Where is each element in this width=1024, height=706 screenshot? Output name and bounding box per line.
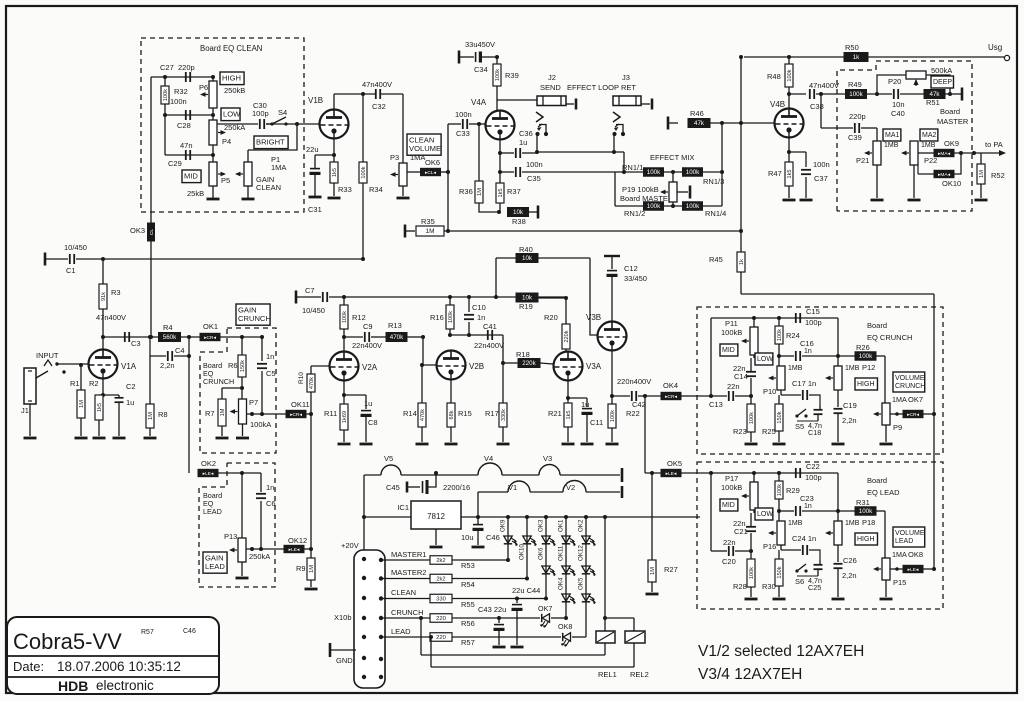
svg-text:C11: C11 — [590, 418, 603, 427]
svg-text:P19 100kB: P19 100kB — [622, 185, 659, 194]
svg-text:V4: V4 — [484, 454, 493, 463]
svg-text:100kA: 100kA — [250, 420, 271, 429]
svg-text:CRUNCH: CRUNCH — [203, 377, 234, 386]
svg-text:100kB: 100kB — [721, 483, 742, 492]
svg-text:R48: R48 — [767, 72, 781, 81]
svg-text:C9: C9 — [363, 322, 373, 331]
svg-text:Board: Board — [940, 107, 960, 116]
svg-text:RN1/4: RN1/4 — [705, 209, 726, 218]
svg-text:V3/4 12AX7EH: V3/4 12AX7EH — [698, 666, 802, 683]
svg-text:1MB: 1MB — [788, 520, 803, 527]
svg-text:1MB: 1MB — [921, 142, 936, 149]
svg-text:V1/2 selected 12AX7EH: V1/2 selected 12AX7EH — [698, 643, 864, 660]
svg-text:500kA: 500kA — [931, 66, 952, 75]
svg-text:1n: 1n — [804, 503, 812, 510]
svg-text:▸LE◂: ▸LE◂ — [289, 547, 300, 553]
svg-text:1k5: 1k5 — [97, 403, 103, 412]
svg-text:1n: 1n — [804, 348, 812, 355]
svg-text:1M: 1M — [650, 567, 656, 575]
svg-text:CRUNCH: CRUNCH — [391, 608, 424, 617]
svg-text:C41: C41 — [483, 322, 497, 331]
svg-text:V3B: V3B — [586, 313, 601, 322]
svg-text:C45: C45 — [386, 483, 400, 492]
svg-text:S4: S4 — [278, 108, 287, 117]
svg-text:1k: 1k — [853, 54, 860, 61]
svg-text:C27: C27 — [160, 63, 174, 72]
svg-text:10k: 10k — [513, 209, 524, 216]
svg-text:10k: 10k — [522, 295, 533, 302]
svg-text:EFFECT LOOP: EFFECT LOOP — [567, 83, 619, 92]
svg-text:100k: 100k — [361, 166, 367, 178]
svg-text:1M: 1M — [79, 400, 85, 408]
svg-text:560k: 560k — [163, 334, 177, 341]
svg-text:OK12: OK12 — [578, 545, 585, 561]
svg-text:R56: R56 — [461, 619, 475, 628]
svg-text:1M: 1M — [425, 228, 434, 235]
svg-text:C34: C34 — [474, 65, 488, 74]
svg-text:22n: 22n — [727, 382, 740, 391]
svg-text:EQ CRUNCH: EQ CRUNCH — [867, 333, 912, 342]
svg-text:C15: C15 — [806, 307, 820, 316]
svg-text:1MA: 1MA — [410, 153, 425, 162]
svg-text:P11: P11 — [725, 319, 738, 328]
svg-text:CRUNCH: CRUNCH — [895, 383, 925, 390]
svg-text:C6: C6 — [266, 499, 276, 508]
svg-text:C20: C20 — [722, 557, 736, 566]
svg-text:1MA: 1MA — [271, 163, 286, 172]
svg-text:47k: 47k — [694, 120, 705, 127]
svg-text:MID: MID — [184, 172, 198, 181]
svg-text:▸MA◂: ▸MA◂ — [938, 172, 951, 178]
svg-text:▸LE◂: ▸LE◂ — [666, 471, 677, 477]
svg-text:P5: P5 — [221, 176, 230, 185]
svg-text:▸CL◂: ▸CL◂ — [425, 170, 437, 176]
svg-text:C25: C25 — [808, 583, 821, 592]
svg-text:R25: R25 — [762, 427, 776, 436]
svg-text:220: 220 — [436, 635, 446, 641]
svg-text:P21: P21 — [856, 156, 869, 165]
svg-text:C29: C29 — [168, 159, 182, 168]
svg-text:R23: R23 — [733, 427, 747, 436]
svg-text:VOLUME: VOLUME — [409, 144, 441, 153]
svg-text:R35: R35 — [421, 217, 435, 226]
svg-text:OK4: OK4 — [558, 577, 565, 590]
svg-text:MASTER: MASTER — [937, 117, 969, 126]
svg-text:10n: 10n — [892, 100, 905, 109]
svg-text:OK12: OK12 — [288, 536, 307, 545]
svg-text:C4: C4 — [175, 346, 185, 355]
svg-text:LOW: LOW — [223, 110, 241, 119]
svg-text:V4B: V4B — [770, 100, 785, 109]
svg-text:R27: R27 — [664, 565, 678, 574]
svg-text:R53: R53 — [461, 561, 475, 570]
svg-text:150k: 150k — [240, 360, 246, 372]
svg-text:47n400V: 47n400V — [96, 313, 126, 322]
svg-text:R52: R52 — [991, 171, 1005, 180]
svg-text:RN1/2: RN1/2 — [624, 209, 645, 218]
svg-text:C46: C46 — [183, 628, 196, 635]
svg-text:P16: P16 — [763, 542, 776, 551]
svg-text:68k: 68k — [449, 410, 455, 419]
svg-text:100k: 100k — [647, 169, 661, 176]
svg-text:C36: C36 — [519, 129, 533, 138]
svg-text:▸CR◂: ▸CR◂ — [907, 412, 919, 418]
svg-text:220k: 220k — [522, 360, 536, 367]
svg-text:J2: J2 — [548, 73, 556, 82]
svg-text:1MA: 1MA — [892, 395, 907, 404]
svg-text:C21: C21 — [734, 527, 748, 536]
svg-text:C39: C39 — [848, 133, 862, 142]
svg-text:V1A: V1A — [121, 362, 137, 371]
svg-text:2200/16: 2200/16 — [443, 483, 470, 492]
svg-text:1n: 1n — [266, 483, 274, 492]
svg-text:250kA: 250kA — [249, 552, 270, 561]
svg-text:100n: 100n — [813, 160, 830, 169]
svg-text:220n400V: 220n400V — [617, 377, 651, 386]
svg-text:220p: 220p — [849, 112, 866, 121]
svg-text:R17: R17 — [485, 409, 499, 418]
svg-text:1k5: 1k5 — [566, 410, 572, 419]
svg-text:MASTER1: MASTER1 — [391, 550, 426, 559]
svg-text:C31: C31 — [308, 205, 322, 214]
svg-text:R10: R10 — [298, 372, 305, 384]
svg-text:Board: Board — [867, 476, 887, 485]
svg-text:R14: R14 — [403, 409, 417, 418]
svg-text:LEAD: LEAD — [203, 507, 222, 516]
svg-text:1u: 1u — [126, 398, 134, 407]
svg-text:MID: MID — [722, 502, 735, 509]
svg-text:2k2: 2k2 — [436, 558, 445, 564]
svg-text:R55: R55 — [461, 600, 475, 609]
svg-text:GND: GND — [336, 656, 353, 665]
svg-text:C16: C16 — [800, 339, 814, 348]
svg-text:CRUNCH: CRUNCH — [238, 314, 271, 323]
svg-text:R13: R13 — [388, 321, 402, 330]
svg-text:22n400V: 22n400V — [352, 341, 382, 350]
svg-text:91k: 91k — [101, 292, 107, 301]
svg-text:470k: 470k — [420, 409, 426, 421]
svg-text:HDB: HDB — [58, 678, 88, 694]
svg-text:47n400V: 47n400V — [362, 80, 392, 89]
svg-text:100p: 100p — [252, 109, 269, 118]
svg-text:10k: 10k — [522, 255, 533, 262]
svg-text:R30: R30 — [762, 582, 776, 591]
svg-text:P15: P15 — [893, 578, 906, 587]
svg-text:C22: C22 — [806, 462, 820, 471]
svg-text:R8: R8 — [158, 410, 168, 419]
svg-text:2,2n: 2,2n — [842, 416, 857, 425]
svg-text:OK10: OK10 — [942, 179, 961, 188]
svg-text:SEND: SEND — [540, 83, 561, 92]
svg-text:2k2: 2k2 — [436, 577, 445, 583]
svg-text:1k5: 1k5 — [787, 169, 793, 178]
svg-text:V1B: V1B — [308, 96, 323, 105]
svg-text:R11: R11 — [324, 409, 337, 418]
svg-text:1MB: 1MB — [884, 142, 899, 149]
svg-text:100k: 100k — [647, 203, 661, 210]
svg-text:C33: C33 — [456, 129, 470, 138]
svg-text:P12: P12 — [862, 363, 875, 372]
svg-text:OK9: OK9 — [500, 519, 507, 532]
svg-text:100k: 100k — [495, 69, 501, 81]
svg-text:R1: R1 — [70, 379, 80, 388]
svg-text:OK1: OK1 — [203, 322, 218, 331]
svg-text:1n: 1n — [266, 352, 274, 361]
svg-text:V3: V3 — [543, 454, 552, 463]
svg-text:R24: R24 — [786, 331, 800, 340]
svg-text:220: 220 — [436, 616, 446, 622]
svg-text:22u C44: 22u C44 — [512, 586, 540, 595]
svg-text:C38: C38 — [810, 102, 824, 111]
svg-text:▸LE◂: ▸LE◂ — [203, 471, 214, 477]
svg-text:100k: 100k — [163, 89, 169, 101]
svg-text:1u: 1u — [364, 399, 372, 408]
svg-text:LEAD: LEAD — [895, 538, 913, 545]
svg-text:C35: C35 — [527, 174, 541, 183]
svg-text:R3: R3 — [111, 288, 121, 297]
svg-text:BRIGHT: BRIGHT — [256, 138, 285, 147]
svg-text:▸CR◂: ▸CR◂ — [290, 412, 302, 418]
svg-text:25kB: 25kB — [187, 189, 204, 198]
svg-text:REL2: REL2 — [630, 670, 649, 679]
svg-text:S5: S5 — [795, 422, 804, 431]
svg-text:R50: R50 — [845, 43, 859, 52]
svg-text:EQ LEAD: EQ LEAD — [867, 488, 900, 497]
svg-text:C1: C1 — [66, 266, 76, 275]
svg-text:100k: 100k — [777, 484, 783, 496]
svg-text:R33: R33 — [338, 185, 352, 194]
svg-text:R18: R18 — [516, 350, 530, 359]
svg-text:▸LE◂: ▸LE◂ — [908, 567, 919, 573]
svg-text:100k: 100k — [342, 311, 348, 323]
svg-text:OK3: OK3 — [538, 519, 545, 532]
svg-text:C26: C26 — [843, 556, 857, 565]
svg-text:to PA: to PA — [985, 140, 1003, 149]
svg-text:C5: C5 — [266, 369, 276, 378]
svg-text:R20: R20 — [544, 313, 558, 322]
svg-text:P4: P4 — [222, 137, 231, 146]
svg-text:100k: 100k — [859, 353, 873, 360]
svg-text:C46: C46 — [486, 533, 500, 542]
svg-text:100n: 100n — [170, 97, 187, 106]
svg-text:250kA: 250kA — [224, 123, 245, 132]
svg-text:150k: 150k — [777, 411, 783, 423]
svg-text:100k: 100k — [686, 169, 700, 176]
svg-text:R37: R37 — [507, 187, 521, 196]
svg-text:R19: R19 — [519, 302, 533, 311]
svg-text:1k5: 1k5 — [332, 168, 338, 177]
svg-text:R28: R28 — [733, 582, 747, 591]
svg-text:V4A: V4A — [471, 98, 487, 107]
svg-text:V1: V1 — [508, 483, 517, 492]
svg-text:OK8: OK8 — [558, 622, 572, 631]
svg-text:47n400V: 47n400V — [809, 81, 839, 90]
svg-text:INPUT: INPUT — [36, 351, 59, 360]
svg-text:▸MA◂: ▸MA◂ — [938, 151, 951, 157]
svg-text:100k: 100k — [749, 412, 755, 424]
svg-text:OK6: OK6 — [538, 547, 545, 560]
svg-text:R45: R45 — [709, 255, 723, 264]
svg-text:47n: 47n — [180, 141, 193, 150]
svg-text:P6: P6 — [199, 83, 208, 92]
svg-text:R51: R51 — [926, 98, 940, 107]
svg-text:IC1: IC1 — [397, 503, 409, 512]
svg-text:R9: R9 — [296, 564, 306, 573]
svg-text:OK4: OK4 — [663, 381, 678, 390]
svg-text:CLEAN: CLEAN — [391, 588, 416, 597]
svg-text:OK1: OK1 — [558, 519, 565, 532]
svg-text:Board: Board — [867, 321, 887, 330]
svg-text:OK7: OK7 — [908, 395, 923, 404]
svg-text:33u450V: 33u450V — [465, 40, 495, 49]
svg-text:1M: 1M — [309, 565, 315, 573]
svg-text:EFFECT MIX: EFFECT MIX — [650, 153, 694, 162]
svg-text:HIGH: HIGH — [857, 536, 875, 543]
svg-text:OK3: OK3 — [130, 226, 145, 235]
svg-text:100p: 100p — [805, 318, 822, 327]
svg-text:R46: R46 — [690, 109, 704, 118]
svg-text:R22: R22 — [626, 409, 640, 418]
svg-text:10/450: 10/450 — [64, 243, 87, 252]
svg-text:RN1/3: RN1/3 — [703, 177, 724, 186]
svg-text:100k: 100k — [686, 203, 700, 210]
svg-text:V2B: V2B — [469, 362, 484, 371]
svg-text:▸CR◂: ▸CR◂ — [204, 335, 216, 341]
svg-text:OK6: OK6 — [425, 158, 440, 167]
svg-text:18.07.2006 10:35:12: 18.07.2006 10:35:12 — [57, 659, 181, 674]
svg-text:P10: P10 — [763, 387, 776, 396]
svg-text:+20V: +20V — [341, 541, 359, 550]
svg-text:C12: C12 — [624, 264, 638, 273]
svg-text:220p: 220p — [178, 63, 195, 72]
svg-text:R34: R34 — [369, 185, 383, 194]
svg-text:OK5: OK5 — [578, 577, 585, 590]
svg-text:1MB: 1MB — [788, 365, 803, 372]
svg-text:DEEP: DEEP — [933, 79, 952, 86]
svg-text:R39: R39 — [505, 71, 519, 80]
svg-text:OK7: OK7 — [538, 604, 552, 613]
svg-text:1M: 1M — [979, 170, 985, 178]
svg-text:P7: P7 — [249, 398, 258, 407]
svg-text:OK5: OK5 — [667, 459, 682, 468]
svg-text:C8: C8 — [368, 418, 378, 427]
svg-text:C43 22u: C43 22u — [478, 605, 506, 614]
svg-text:P17: P17 — [725, 474, 738, 483]
svg-text:330k: 330k — [501, 409, 507, 421]
svg-text:C32: C32 — [372, 102, 386, 111]
svg-text:P22: P22 — [924, 156, 937, 165]
svg-text:P3: P3 — [390, 153, 399, 162]
svg-text:C24 1n: C24 1n — [792, 534, 816, 543]
svg-text:100k: 100k — [610, 410, 616, 422]
svg-text:RET: RET — [621, 83, 636, 92]
svg-text:100kB: 100kB — [721, 328, 742, 337]
svg-text:1u: 1u — [519, 138, 527, 147]
svg-text:V5: V5 — [384, 454, 393, 463]
svg-text:150k: 150k — [777, 566, 783, 578]
svg-text:OK2: OK2 — [201, 459, 216, 468]
svg-text:REL1: REL1 — [598, 670, 617, 679]
svg-text:330: 330 — [436, 597, 446, 603]
svg-text:2,2n: 2,2n — [160, 361, 175, 370]
svg-text:R38: R38 — [512, 217, 526, 226]
svg-text:R2: R2 — [89, 379, 99, 388]
svg-text:OK9: OK9 — [944, 139, 959, 148]
svg-text:100k: 100k — [849, 91, 863, 98]
svg-text:1k: 1k — [739, 259, 745, 265]
svg-text:R57: R57 — [461, 638, 475, 647]
svg-text:C14: C14 — [734, 372, 748, 381]
svg-text:250kB: 250kB — [224, 86, 245, 95]
svg-text:R16: R16 — [430, 313, 444, 322]
svg-text:VOLUME: VOLUME — [895, 530, 925, 537]
svg-text:C37: C37 — [814, 174, 828, 183]
svg-text:X10b: X10b — [334, 613, 352, 622]
svg-text:J3: J3 — [622, 73, 630, 82]
svg-text:100k: 100k — [859, 508, 873, 515]
svg-text:1k69: 1k69 — [342, 411, 348, 423]
svg-text:CL: CL — [149, 229, 155, 235]
svg-text:P13: P13 — [224, 532, 237, 541]
svg-text:C3: C3 — [131, 339, 141, 348]
svg-text:R47: R47 — [768, 169, 782, 178]
svg-text:C17 1n: C17 1n — [792, 379, 816, 388]
svg-text:P20: P20 — [888, 77, 901, 86]
svg-text:100n: 100n — [455, 110, 472, 119]
svg-text:R7: R7 — [205, 409, 215, 418]
svg-text:1MA: 1MA — [892, 550, 907, 559]
svg-text:R40: R40 — [519, 245, 533, 254]
svg-text:22n400V: 22n400V — [474, 341, 504, 350]
svg-text:OK11: OK11 — [558, 545, 565, 561]
svg-text:2,2n: 2,2n — [842, 571, 857, 580]
svg-text:OK10: OK10 — [519, 544, 526, 560]
svg-text:R6: R6 — [228, 361, 238, 370]
svg-text:R29: R29 — [786, 486, 800, 495]
svg-text:CLEAN: CLEAN — [256, 183, 281, 192]
svg-text:Usg: Usg — [988, 43, 1002, 52]
svg-text:C2: C2 — [126, 382, 136, 391]
svg-text:470k: 470k — [390, 334, 404, 341]
svg-text:100k: 100k — [448, 311, 454, 323]
svg-text:100k: 100k — [777, 329, 783, 341]
svg-text:R36: R36 — [459, 187, 473, 196]
svg-text:1MB: 1MB — [845, 365, 860, 372]
svg-text:LOW: LOW — [757, 511, 773, 518]
svg-text:MA1: MA1 — [885, 132, 900, 139]
svg-text:1M: 1M — [148, 412, 154, 420]
svg-text:Board EQ CLEAN: Board EQ CLEAN — [200, 44, 262, 53]
svg-text:R12: R12 — [352, 313, 366, 322]
svg-text:R54: R54 — [461, 580, 475, 589]
svg-text:R49: R49 — [848, 80, 862, 89]
svg-text:C19: C19 — [843, 401, 857, 410]
svg-text:RN1/1: RN1/1 — [622, 163, 643, 172]
svg-text:1MB: 1MB — [845, 520, 860, 527]
svg-text:1k5: 1k5 — [498, 188, 504, 197]
svg-text:VOLUME: VOLUME — [895, 375, 925, 382]
svg-text:100p: 100p — [805, 473, 822, 482]
svg-text:electronic: electronic — [96, 678, 154, 693]
svg-text:S6: S6 — [795, 577, 804, 586]
svg-text:C18: C18 — [808, 428, 821, 437]
svg-text:R31: R31 — [856, 498, 870, 507]
svg-text:C23: C23 — [800, 494, 814, 503]
svg-text:100k: 100k — [787, 69, 793, 81]
svg-text:V2: V2 — [566, 483, 575, 492]
svg-text:R21: R21 — [548, 409, 562, 418]
svg-text:7812: 7812 — [427, 512, 445, 521]
